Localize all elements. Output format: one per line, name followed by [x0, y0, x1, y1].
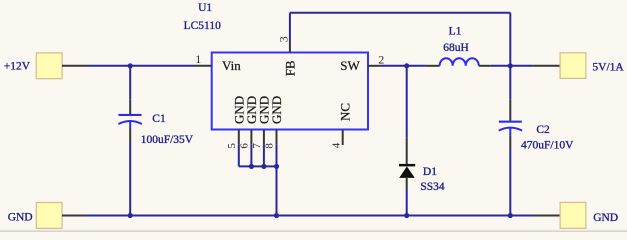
pin 8 GND — [264, 96, 285, 167]
junction output node — [508, 63, 513, 68]
svg-text:1: 1 — [195, 52, 201, 66]
wire FB riser — [289, 13, 291, 41]
wire D1 to GND rail — [406, 188, 408, 216]
junction pin6/bus — [249, 164, 254, 169]
svg-text:+12V: +12V — [4, 61, 31, 73]
wire C2 to GND rail — [509, 149, 511, 216]
svg-text:L1: L1 — [449, 26, 462, 38]
wire FB top rail — [290, 12, 510, 14]
pin 7 GND — [251, 96, 272, 167]
svg-text:5V/1A: 5V/1A — [592, 61, 624, 73]
junction pin8/bus — [274, 164, 279, 169]
svg-text:7: 7 — [251, 143, 263, 149]
svg-text:470uF/10V: 470uF/10V — [521, 139, 574, 151]
capacitor C2 470uF/10V — [499, 100, 574, 152]
wire input node to C1 — [129, 66, 131, 100]
svg-text:SS34: SS34 — [420, 181, 445, 193]
inductor L1 68uH — [425, 26, 490, 66]
wire L1 to output node — [491, 65, 511, 67]
svg-text:C2: C2 — [536, 124, 550, 136]
svg-text:2: 2 — [378, 53, 384, 67]
port +12V — [4, 53, 88, 79]
wire GND rail — [87, 215, 533, 217]
wire output node to port 5V/1A — [510, 65, 532, 67]
svg-text:8: 8 — [264, 143, 276, 149]
junction D1/GND rail — [404, 213, 409, 218]
svg-text:C1: C1 — [152, 113, 166, 125]
svg-text:68uH: 68uH — [443, 42, 469, 54]
pin 5 GND — [226, 96, 247, 167]
svg-text:GND: GND — [593, 212, 618, 224]
pin 1 Vin — [195, 52, 241, 73]
pin 3 FB — [276, 36, 297, 76]
svg-text:LC5110: LC5110 — [184, 20, 222, 32]
svg-text:SW: SW — [340, 58, 360, 73]
svg-text:4: 4 — [331, 142, 343, 148]
wire SW to L1 — [380, 65, 425, 67]
port GND left — [8, 203, 87, 229]
svg-text:100uF/35V: 100uF/35V — [141, 134, 194, 146]
svg-text:U1: U1 — [198, 2, 212, 14]
wire top rail down to output node — [509, 13, 511, 66]
svg-text:NC: NC — [338, 103, 353, 121]
port 5V/1A — [533, 53, 625, 79]
junction pin7/bus — [261, 164, 266, 169]
junction GND bus/rail — [274, 213, 279, 218]
svg-text:3: 3 — [276, 36, 290, 42]
pin 6 GND — [239, 96, 260, 167]
junction input/C1 node — [128, 63, 133, 68]
junction C1/GND rail — [128, 213, 133, 218]
wire +12V to pin Vin — [88, 65, 195, 67]
svg-text:Vin: Vin — [222, 58, 241, 73]
wire GND pins bus — [239, 165, 277, 167]
junction SW/D1 node — [404, 63, 409, 68]
svg-text:6: 6 — [239, 143, 251, 149]
diode D1 SS34 — [399, 138, 445, 193]
wire output node to C2 — [509, 66, 511, 100]
svg-text:D1: D1 — [423, 166, 437, 178]
IC U1 LC5110 body — [212, 53, 368, 130]
pin 2 SW — [340, 53, 384, 73]
wire GND bus down to rail — [276, 166, 278, 215]
port GND right — [533, 202, 618, 228]
svg-text:GND: GND — [8, 212, 33, 224]
pin 4 NC — [331, 103, 353, 148]
wire C1 to GND rail — [129, 143, 131, 216]
capacitor C1 100uF/35V — [118, 100, 193, 146]
junction C2/GND rail — [508, 213, 513, 218]
svg-text:5: 5 — [226, 143, 238, 149]
svg-text:GND: GND — [269, 96, 284, 124]
svg-text:FB: FB — [283, 60, 298, 76]
wire SW node to D1 — [406, 66, 408, 138]
